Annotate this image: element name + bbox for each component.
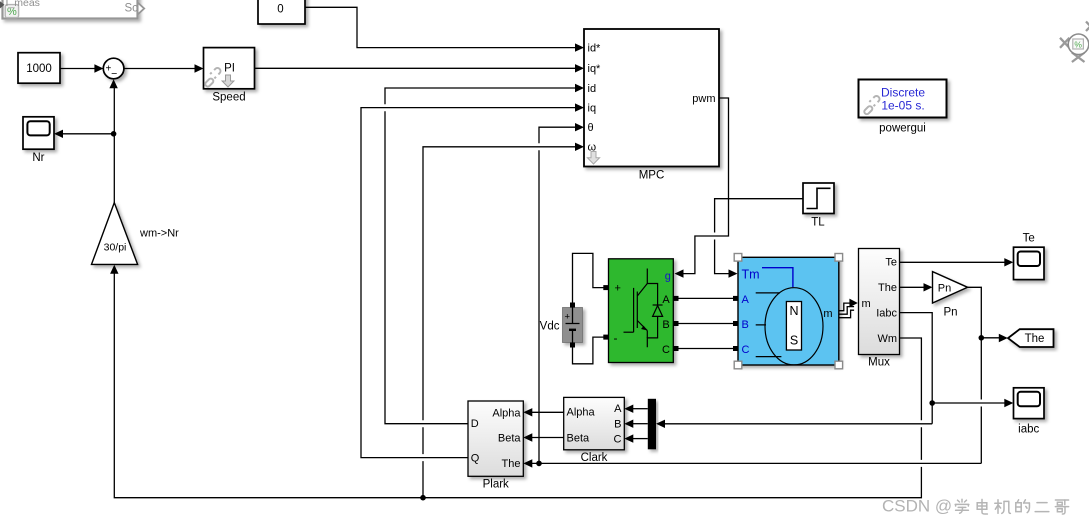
wire demux to Clark B	[632, 423, 648, 425]
node The tap	[979, 335, 985, 341]
svg-text:Plark: Plark	[483, 479, 509, 491]
svg-text:1e-05 s.: 1e-05 s.	[881, 98, 924, 112]
arrowhead into MPC iq	[575, 103, 584, 111]
wire inverter A to motor A	[678, 297, 733, 299]
svg-text:Mux: Mux	[868, 357, 890, 369]
svg-text:Wm: Wm	[877, 333, 897, 345]
scope iabc	[1014, 388, 1045, 436]
Mux measurement demux block	[859, 249, 900, 369]
svg-text:Sc: Sc	[125, 3, 139, 15]
svg-text:Pn: Pn	[943, 306, 957, 318]
svg-text:The: The	[502, 458, 521, 470]
wire demux to Clark A	[632, 408, 648, 410]
hanzi ji	[995, 500, 1011, 514]
svg-text:+: +	[615, 282, 621, 294]
svg-text:I_meas: I_meas	[6, 0, 40, 9]
wire 1000 to Sum	[60, 68, 96, 70]
svg-text:Discrete: Discrete	[881, 85, 925, 99]
svg-text:0: 0	[277, 3, 283, 15]
svg-text:Te: Te	[885, 256, 897, 268]
PI controller block Speed	[204, 48, 255, 104]
constant 0	[258, 0, 305, 24]
gain Pn	[933, 272, 968, 319]
wire iabc to demux	[663, 423, 932, 425]
goto tag The	[1008, 329, 1054, 347]
svg-text:C: C	[662, 344, 670, 356]
node Nr tap	[111, 131, 117, 137]
hanzi er	[1035, 503, 1049, 512]
svg-text:Beta: Beta	[498, 433, 522, 445]
wire Sum to PI	[124, 68, 196, 70]
svg-text:+: +	[565, 312, 571, 323]
broken link icon	[204, 68, 220, 88]
svg-text:pwm: pwm	[692, 93, 715, 105]
wire Mux The to gain Pn	[900, 286, 926, 288]
hanzi ge	[1055, 500, 1068, 514]
MPC subsystem	[584, 29, 719, 182]
svg-text:D: D	[471, 418, 479, 430]
arrowhead into Plark Alpha	[523, 408, 532, 416]
svg-text:The: The	[1025, 333, 1045, 345]
svg-text:powergui: powergui	[879, 123, 926, 135]
step block TL	[803, 183, 834, 229]
svg-text:The: The	[878, 282, 897, 294]
wire Clark Beta to Plark Beta	[531, 437, 564, 439]
hanzi de	[1016, 500, 1030, 513]
cursor badge icon top right	[1060, 22, 1089, 63]
wire Constant0 to MPC id*	[305, 7, 577, 47]
wire iabc branch to scope	[932, 402, 1006, 404]
node omega tap	[420, 495, 426, 501]
scope Te	[1014, 232, 1045, 279]
svg-text:MPC: MPC	[639, 170, 665, 182]
wire The horizontal to Plark	[531, 462, 981, 464]
svg-text:%: %	[1074, 40, 1082, 50]
arrowhead into demux	[656, 420, 665, 428]
svg-text:TL: TL	[811, 217, 825, 229]
svg-text:-: -	[614, 331, 618, 345]
demux bar	[648, 399, 656, 450]
arrowhead into MPC iq*	[575, 64, 584, 72]
arrowhead into scope Nr	[54, 130, 63, 138]
svg-text:Nr: Nr	[32, 152, 44, 164]
DC source Vdc	[540, 303, 583, 348]
inverter block (green universal bridge)	[603, 259, 678, 363]
svg-text:1000: 1000	[26, 63, 52, 75]
arrowhead into gain Pn	[924, 283, 933, 291]
svg-text:Iabc: Iabc	[876, 307, 897, 319]
svg-text:Alpha: Alpha	[567, 406, 596, 418]
arrowhead into MPC id*	[575, 43, 584, 51]
svg-text:g: g	[665, 271, 671, 283]
wire inverter B to motor B	[678, 323, 733, 325]
svg-text:A: A	[614, 403, 622, 415]
arrowhead into Clark B	[624, 420, 633, 428]
svg-text:Pn: Pn	[938, 282, 951, 294]
svg-text:C: C	[742, 344, 750, 356]
gain 30/pi (wm to Nr)	[92, 203, 180, 265]
Clark transform block	[564, 397, 625, 464]
arrowhead into goto The	[999, 334, 1008, 342]
arrowhead into motor Tm	[729, 269, 738, 277]
wire Vdc plus to inverter plus	[573, 253, 604, 302]
arrowhead into scope Te	[1004, 258, 1013, 266]
arrowhead into Sum bottom	[109, 79, 117, 88]
svg-text:iq: iq	[588, 102, 597, 114]
PMSM motor block (blue)	[733, 254, 843, 369]
svg-text:30/pi: 30/pi	[104, 242, 127, 254]
svg-text:B: B	[742, 319, 749, 331]
selection handles	[734, 254, 842, 369]
svg-text:C: C	[614, 434, 622, 446]
arrowhead into Plark The	[523, 459, 532, 467]
wire Mux Wm bottom feedback	[114, 272, 921, 498]
arrowhead into MPC omega	[575, 143, 584, 151]
powergui block	[859, 80, 947, 135]
hanzi dian	[977, 499, 987, 514]
svg-text:−: −	[111, 68, 117, 80]
svg-text:CSDN @: CSDN @	[882, 496, 952, 515]
svg-text:iq*: iq*	[588, 63, 602, 75]
svg-text:B: B	[614, 419, 621, 431]
wire The branch to goto tag	[981, 337, 1001, 339]
wire Clark Alpha to Plark Alpha	[531, 411, 564, 413]
svg-text:Beta: Beta	[567, 432, 591, 444]
svg-text:PI: PI	[224, 62, 235, 74]
node iabc tap	[929, 400, 935, 406]
arrowhead into MPC theta	[575, 123, 584, 131]
svg-text:m: m	[862, 298, 871, 310]
arrowhead into inverter g	[675, 269, 684, 277]
svg-text:wm->Nr: wm->Nr	[139, 227, 179, 239]
wire MPC pwm to inverter g	[682, 98, 729, 274]
wire Plark D to MPC id	[385, 88, 577, 424]
arrowhead into scope iabc	[1004, 399, 1013, 407]
arrowhead into PI	[195, 64, 204, 72]
scope Nr	[23, 117, 54, 164]
svg-text:θ: θ	[588, 122, 594, 134]
watermark CSDN	[882, 496, 1069, 515]
wire 30pi to Sum	[113, 87, 115, 203]
svg-text:Te: Te	[1023, 232, 1035, 244]
bus squiggle motor m to Mux	[839, 299, 858, 318]
wire PI to MPC iq*	[255, 67, 577, 69]
svg-text:Vdc: Vdc	[540, 321, 560, 333]
svg-text:id*: id*	[588, 42, 602, 54]
wire Vdc minus to inverter minus	[573, 337, 604, 364]
wire Plark Q to MPC iq	[361, 108, 577, 458]
wire branch to scope Nr	[61, 133, 114, 135]
svg-text:Alpha: Alpha	[492, 407, 521, 419]
svg-text:B: B	[662, 319, 669, 331]
svg-text:Speed: Speed	[212, 92, 245, 104]
arrowhead into Clark C	[624, 434, 633, 442]
svg-text:iabc: iabc	[1018, 423, 1039, 435]
wire Pn output down	[968, 287, 982, 463]
svg-text:S: S	[790, 334, 798, 348]
wire inverter C to motor C	[678, 348, 733, 350]
svg-text:id: id	[588, 83, 597, 95]
svg-text:N: N	[789, 304, 798, 318]
wire demux to Clark C	[632, 438, 648, 440]
wire TL to motor Tm	[715, 199, 803, 274]
wire Mux Te to scope Te	[900, 261, 1007, 263]
svg-text:Clark: Clark	[581, 452, 608, 464]
svg-text:A: A	[662, 294, 670, 306]
svg-text:Q: Q	[471, 452, 480, 464]
constant 1000	[18, 53, 60, 83]
Plark (inverse Park) block	[468, 401, 523, 491]
svg-text:A: A	[742, 294, 750, 306]
arrowhead into Sum	[94, 64, 103, 72]
arrowhead into MPC id	[575, 84, 584, 92]
svg-text:Tm: Tm	[742, 267, 760, 281]
wire omega vertical to MPC	[423, 147, 577, 498]
wire theta vertical to MPC	[539, 127, 577, 463]
hanzi xue	[955, 499, 969, 513]
wire Mux Iabc down	[900, 313, 933, 424]
svg-text:m: m	[823, 308, 832, 320]
arrowhead into Clark A	[624, 405, 633, 413]
sum block	[103, 58, 124, 80]
node theta tap	[536, 461, 542, 467]
arrowhead into Plark Beta	[523, 433, 532, 441]
arrowhead into 30pi gain	[110, 265, 118, 274]
ghost subsystem I_meas (top left, faded)	[0, 0, 144, 19]
gray down arrow icon	[222, 75, 234, 87]
